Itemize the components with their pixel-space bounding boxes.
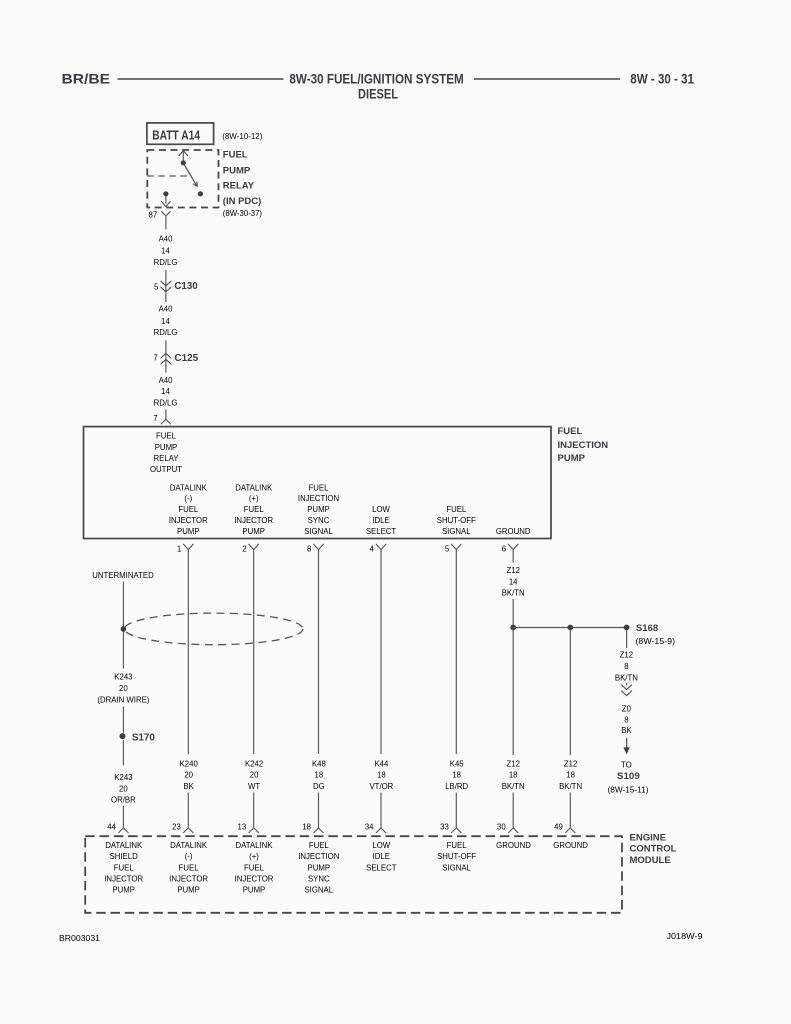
wire Z12 segment (512, 599, 514, 628)
wire K44 segment to ECM (380, 793, 382, 828)
relay: fuel pump relay dashed outline (147, 150, 218, 208)
ECM pin 23 function label (169, 841, 208, 894)
wire label K243 20 OR/BR (111, 773, 136, 805)
svg-text:SYNC: SYNC (308, 874, 330, 883)
wire K240 segment to ECM (187, 793, 189, 828)
wire K45 segment to ECM (455, 793, 457, 828)
wire K242 segment from pump (253, 550, 255, 754)
svg-text:VT/OR: VT/OR (369, 782, 393, 791)
svg-text:(8W-15-9): (8W-15-9) (636, 637, 676, 646)
svg-text:PUMP: PUMP (112, 885, 135, 894)
svg-text:K240: K240 (180, 759, 199, 768)
svg-text:5: 5 (445, 545, 450, 554)
svg-text:K44: K44 (374, 759, 389, 768)
svg-text:FUEL: FUEL (447, 841, 468, 850)
svg-text:87: 87 (149, 211, 158, 220)
svg-text:(+): (+) (249, 852, 259, 861)
wire Z12 segment from pump pin 6 (512, 550, 514, 563)
wire Z12 segment below S168 (626, 630, 628, 648)
svg-text:6: 6 (502, 545, 506, 554)
svg-text:DATALINK: DATALINK (170, 483, 208, 492)
ECM pin 33 number (440, 822, 449, 831)
module box ENGINE CONTROL MODULE (dashed) (85, 836, 622, 913)
svg-text:(+): (+) (249, 494, 259, 503)
svg-text:SELECT: SELECT (366, 527, 397, 536)
svg-text:INJECTOR: INJECTOR (235, 874, 274, 883)
ECM pin 30 function label (496, 841, 531, 850)
svg-text:MODULE: MODULE (630, 855, 671, 866)
wire K45 segment from pump (455, 550, 457, 754)
component name FUEL INJECTION PUMP (558, 426, 609, 464)
svg-text:14: 14 (509, 577, 518, 586)
svg-text:8: 8 (624, 662, 628, 671)
header title 8W-30 FUEL/IGNITION SYSTEM DIESEL (289, 71, 463, 102)
svg-text:PUMP: PUMP (177, 527, 200, 536)
ECM pin 49 function label (553, 841, 588, 850)
svg-text:PUMP: PUMP (242, 527, 265, 536)
svg-text:FUEL: FUEL (114, 863, 135, 872)
pin 7 label (153, 354, 157, 363)
relay internal divider dashes (147, 175, 189, 177)
svg-text:WT: WT (248, 782, 260, 791)
relay pin 30 terminal arrow up (179, 151, 188, 163)
svg-text:13: 13 (238, 822, 247, 831)
relay name label FUEL PUMP RELAY (IN PDC) (223, 150, 262, 207)
svg-text:FUEL: FUEL (223, 150, 248, 161)
svg-text:8: 8 (624, 715, 628, 724)
ECM pin 33 fork (452, 828, 461, 833)
wire A40 segment (165, 340, 167, 372)
relay pin 87 dot (163, 191, 168, 196)
wire Z12 segment to ECM pin 30 (512, 793, 514, 828)
svg-text:PUMP: PUMP (155, 443, 178, 452)
svg-text:FUEL: FUEL (309, 841, 330, 850)
wire label K243 20 (DRAIN WIRE) (97, 672, 149, 704)
junction dot at splice bus (510, 625, 516, 631)
svg-text:1: 1 (177, 545, 181, 554)
ECM pin 49 number (554, 822, 563, 831)
svg-text:LB/RD: LB/RD (445, 782, 468, 791)
svg-text:S168: S168 (636, 623, 658, 634)
svg-text:8W - 30 - 31: 8W - 30 - 31 (630, 71, 694, 87)
svg-text:A40: A40 (159, 305, 174, 314)
svg-text:30: 30 (497, 822, 506, 831)
ECM pin 49 fork (566, 828, 575, 833)
svg-text:DATALINK: DATALINK (235, 483, 273, 492)
connector fork at relay pin 87 (162, 212, 171, 216)
svg-text:4: 4 (370, 545, 375, 554)
svg-text:BK/TN: BK/TN (502, 588, 525, 597)
relay pin 87 lead arrow down (162, 196, 171, 206)
svg-text:(-): (-) (185, 852, 193, 861)
svg-text:IDLE: IDLE (373, 852, 390, 861)
pin function label: GROUND (496, 527, 531, 536)
svg-text:SIGNAL: SIGNAL (442, 863, 471, 872)
ECM pin 18 number (302, 822, 311, 831)
svg-text:RD/LG: RD/LG (154, 398, 178, 407)
pump pin 2 fork (249, 544, 259, 549)
svg-text:BK/TN: BK/TN (615, 673, 638, 682)
in-line connector C130 (pin 5) (161, 281, 171, 292)
svg-text:K45: K45 (450, 759, 465, 768)
svg-text:14: 14 (161, 317, 170, 326)
svg-text:(-): (-) (184, 494, 192, 503)
svg-text:8: 8 (307, 545, 311, 554)
junction dot col 49 (567, 625, 573, 631)
svg-text:PUMP: PUMP (308, 863, 331, 872)
svg-text:K242: K242 (245, 759, 263, 768)
wire A40 segment into pump (165, 409, 167, 419)
svg-text:RD/LG: RD/LG (154, 328, 178, 337)
svg-text:(8W-15-11): (8W-15-11) (608, 786, 649, 795)
svg-text:BATT A14: BATT A14 (152, 127, 200, 142)
svg-text:PUMP: PUMP (243, 885, 266, 894)
svg-text:BR003031: BR003031 (59, 934, 100, 943)
wire K243 drain segment (122, 632, 124, 669)
svg-text:INJECTION: INJECTION (558, 440, 609, 451)
svg-text:20: 20 (184, 771, 193, 780)
svg-text:IDLE: IDLE (372, 516, 389, 525)
wire K243 drain segment (122, 582, 124, 628)
wire label K44 18 VT/OR (369, 759, 393, 790)
in-line connector chevrons on ground wire (622, 683, 632, 696)
svg-text:LOW: LOW (372, 841, 390, 850)
wire label Z12 18 BK/TN (502, 759, 525, 790)
svg-text:OR/BR: OR/BR (111, 796, 136, 805)
svg-text:FUEL: FUEL (446, 505, 467, 514)
ECM pin 44 function label (104, 841, 143, 894)
reference (8W-30-37) (223, 209, 263, 218)
pin function label: DATALINK (+) FUEL INJECTOR PUMP (234, 483, 273, 536)
splice S170 dot (120, 733, 126, 739)
svg-text:A40: A40 (159, 234, 174, 243)
svg-text:BK/TN: BK/TN (502, 782, 525, 791)
svg-text:2: 2 (242, 545, 246, 554)
svg-text:PUMP: PUMP (177, 885, 200, 894)
pump pin 6 number (502, 545, 506, 554)
ECM pin 44 fork (119, 828, 128, 833)
svg-text:Z12: Z12 (564, 759, 577, 768)
svg-text:FUEL: FUEL (178, 505, 199, 514)
svg-text:DATALINK: DATALINK (105, 841, 143, 850)
svg-text:J018W-9: J018W-9 (667, 932, 703, 941)
wire K48 segment to ECM (318, 793, 320, 828)
ECM pin 18 fork (314, 828, 323, 833)
wire K44 segment from pump (380, 550, 382, 754)
svg-text:23: 23 (172, 822, 181, 831)
pump pin 2 number (242, 545, 246, 554)
pump pin 8 number (307, 545, 311, 554)
svg-text:S109: S109 (617, 771, 640, 782)
wire Z12 segment from splice (569, 628, 571, 756)
ECM pin 23 fork (184, 828, 193, 833)
svg-text:33: 33 (440, 822, 449, 831)
svg-text:34: 34 (365, 822, 374, 831)
relay common pivot dot (181, 160, 186, 165)
ECM pin 34 function label (366, 841, 397, 872)
svg-text:FUEL: FUEL (244, 505, 265, 514)
svg-text:CONTROL: CONTROL (630, 844, 677, 855)
wire: splice bus to S168 (513, 627, 626, 629)
svg-text:SYNC: SYNC (308, 516, 330, 525)
reference (8W-10-12) (222, 132, 263, 141)
svg-text:14: 14 (161, 246, 170, 255)
ECM pin 34 fork (376, 828, 385, 833)
pump pin 6 fork (508, 544, 518, 549)
pin function label: LOW IDLE SELECT (366, 505, 397, 536)
pump pin 8 fork (314, 544, 324, 549)
svg-text:44: 44 (107, 822, 116, 831)
svg-text:FUEL: FUEL (558, 426, 583, 437)
pin 7 label (153, 414, 157, 423)
wire K48 segment from pump (318, 550, 320, 754)
ECM pin 13 fork (249, 828, 258, 833)
svg-text:FUEL: FUEL (156, 432, 177, 441)
svg-text:RELAY: RELAY (154, 454, 180, 463)
svg-text:K48: K48 (312, 759, 326, 768)
wire A40 segment (165, 270, 167, 302)
svg-text:18: 18 (509, 771, 518, 780)
ECM pin 30 number (497, 822, 506, 831)
svg-text:SIGNAL: SIGNAL (304, 527, 333, 536)
svg-text:FUEL: FUEL (179, 863, 200, 872)
module name ENGINE CONTROL MODULE (630, 833, 677, 866)
header page code BR/BE (62, 71, 111, 87)
svg-text:DG: DG (313, 782, 325, 791)
wire label Z12 18 BK/TN (559, 759, 582, 790)
svg-text:TO: TO (621, 760, 632, 769)
wire label K45 18 LB/RD (445, 759, 468, 790)
svg-text:SHUT-OFF: SHUT-OFF (437, 516, 476, 525)
svg-text:BK: BK (183, 782, 194, 791)
wire label A40 14 RD/LG (154, 305, 178, 338)
wire label Z12 14 BK/TN (502, 566, 525, 597)
svg-text:INJECTOR: INJECTOR (234, 516, 273, 525)
ECM pin 13 function label (235, 841, 274, 894)
footer code J018W-9 (667, 932, 703, 941)
svg-text:PUMP: PUMP (223, 165, 251, 176)
svg-text:UNTERMINATED: UNTERMINATED (92, 571, 154, 580)
svg-text:(8W-10-12): (8W-10-12) (222, 132, 263, 141)
wire label K240 20 BK (180, 759, 199, 790)
reference (8W-15-9) (636, 637, 676, 646)
pump pin 1 number (177, 545, 181, 554)
ECM pin 18 function label (298, 841, 339, 894)
svg-text:DATALINK: DATALINK (236, 841, 274, 850)
component box FUEL INJECTION PUMP (84, 427, 552, 539)
svg-text:S170: S170 (132, 733, 156, 744)
pump pin 4 number (370, 545, 375, 554)
relay contact dot (unused throw) (198, 191, 203, 196)
wire K243 segment (122, 740, 124, 765)
svg-text:Z0: Z0 (622, 704, 632, 713)
svg-text:SHUT-OFF: SHUT-OFF (437, 852, 476, 861)
wire K243 segment to ECM (122, 806, 124, 828)
svg-text:18: 18 (566, 771, 575, 780)
svg-text:7: 7 (153, 354, 157, 363)
svg-text:K243: K243 (114, 773, 132, 782)
header page number 8W - 30 - 31 (630, 71, 694, 87)
svg-text:OUTPUT: OUTPUT (150, 465, 182, 474)
svg-text:5: 5 (154, 282, 159, 291)
svg-text:PUMP: PUMP (307, 505, 330, 514)
splice name S170 (132, 733, 156, 744)
ECM pin 13 number (238, 822, 247, 831)
svg-text:GROUND: GROUND (553, 841, 588, 850)
svg-text:BK/TN: BK/TN (559, 782, 582, 791)
svg-text:FUEL: FUEL (244, 863, 265, 872)
wire label Z12 8 BK/TN (615, 651, 638, 683)
relay movable contact arm w/ arrowhead (184, 164, 197, 186)
svg-text:INJECTION: INJECTION (298, 852, 339, 861)
pin function label: FUEL INJECTION PUMP SYNC SIGNAL (298, 483, 339, 536)
svg-text:INJECTOR: INJECTOR (169, 516, 208, 525)
wire A40 segment from relay (165, 216, 167, 229)
svg-text:Z12: Z12 (506, 759, 519, 768)
svg-text:C125: C125 (174, 353, 198, 364)
svg-text:K243: K243 (114, 672, 132, 681)
svg-text:BK: BK (621, 726, 632, 735)
svg-text:INJECTION: INJECTION (298, 494, 339, 503)
header rule right (474, 78, 620, 80)
pin function label: FUEL PUMP RELAY OUTPUT (150, 432, 182, 474)
svg-text:SIGNAL: SIGNAL (442, 527, 471, 536)
pin function label: FUEL SHUT-OFF SIGNAL (437, 505, 476, 536)
svg-text:18: 18 (315, 771, 324, 780)
pump pin 5 fork (452, 544, 462, 549)
svg-text:18: 18 (377, 771, 386, 780)
connector name C125 (174, 353, 198, 364)
svg-text:INJECTOR: INJECTOR (169, 874, 208, 883)
svg-text:LOW: LOW (372, 505, 390, 514)
pump pin 5 number (445, 545, 450, 554)
shield (dashed ellipse) around datalink pair (125, 613, 303, 645)
wire Z12 segment to ECM pin 49 (569, 793, 571, 828)
svg-text:BR/BE: BR/BE (62, 71, 111, 87)
ECM pin 34 number (365, 822, 374, 831)
splice S168 dot (624, 625, 630, 631)
svg-text:7: 7 (153, 414, 157, 423)
wire K240 segment from pump (187, 550, 189, 754)
svg-text:18: 18 (452, 771, 461, 780)
svg-text:DATALINK: DATALINK (170, 841, 208, 850)
svg-text:SHIELD: SHIELD (110, 852, 139, 861)
svg-text:DIESEL: DIESEL (358, 86, 398, 102)
wire label K242 20 WT (245, 759, 263, 790)
wire Z12 segment down (512, 628, 514, 756)
svg-text:20: 20 (119, 785, 128, 794)
svg-text:ENGINE: ENGINE (630, 833, 666, 844)
junction dot: drain wire to shield (121, 626, 127, 632)
wire label K48 18 DG (312, 759, 326, 790)
wire label A40 14 RD/LG (154, 234, 178, 267)
svg-text:(DRAIN WIRE): (DRAIN WIRE) (97, 695, 149, 704)
svg-text:PUMP: PUMP (558, 453, 586, 464)
wire K243 segment (122, 707, 124, 733)
svg-text:8W-30 FUEL/IGNITION SYSTEM: 8W-30 FUEL/IGNITION SYSTEM (289, 71, 463, 87)
header rule left (118, 78, 284, 80)
svg-text:(IN PDC): (IN PDC) (223, 196, 262, 207)
ECM pin 33 function label (437, 841, 476, 872)
arrow to off-page ground (623, 738, 629, 754)
svg-text:20: 20 (250, 771, 259, 780)
footer code BR003031 (59, 934, 100, 943)
pin function label: DATALINK (-) FUEL INJECTOR PUMP (169, 483, 208, 536)
svg-text:Z12: Z12 (620, 651, 633, 660)
pump pin 4 fork (376, 544, 386, 549)
splice name S168 (636, 623, 658, 634)
wire K242 segment to ECM (253, 793, 255, 828)
svg-text:C130: C130 (174, 281, 198, 292)
label UNTERMINATED (92, 571, 154, 580)
svg-text:(8W-30-37): (8W-30-37) (223, 209, 263, 218)
svg-text:GROUND: GROUND (496, 527, 531, 536)
off-page label TO S109 (8W-15-11) (608, 760, 649, 794)
svg-text:RD/LG: RD/LG (154, 258, 178, 267)
svg-text:49: 49 (554, 822, 563, 831)
pin 5 label (154, 282, 159, 291)
ECM pin 30 fork (509, 828, 518, 833)
pump pin 1 fork (184, 544, 194, 549)
wire label A40 14 RD/LG (154, 376, 178, 407)
ECM pin 44 number (107, 822, 116, 831)
svg-text:A40: A40 (159, 376, 174, 385)
ECM pin 23 number (172, 822, 181, 831)
in-line connector C125 (pin 7) (161, 353, 171, 364)
connector name C130 (174, 281, 198, 292)
pin 87 label (149, 211, 158, 220)
svg-text:14: 14 (161, 387, 170, 396)
svg-text:GROUND: GROUND (496, 841, 531, 850)
svg-text:Z12: Z12 (506, 566, 519, 575)
battery feed box BATT A14 (147, 123, 214, 144)
connector fork at pump pin 7 (161, 419, 170, 424)
svg-text:INJECTOR: INJECTOR (104, 874, 143, 883)
wire label Z0 8 BK (621, 704, 632, 735)
svg-text:RELAY: RELAY (223, 181, 255, 192)
svg-text:FUEL: FUEL (309, 483, 330, 492)
svg-text:SELECT: SELECT (366, 863, 397, 872)
svg-text:18: 18 (302, 822, 311, 831)
svg-text:SIGNAL: SIGNAL (304, 885, 333, 894)
svg-text:20: 20 (119, 684, 128, 693)
